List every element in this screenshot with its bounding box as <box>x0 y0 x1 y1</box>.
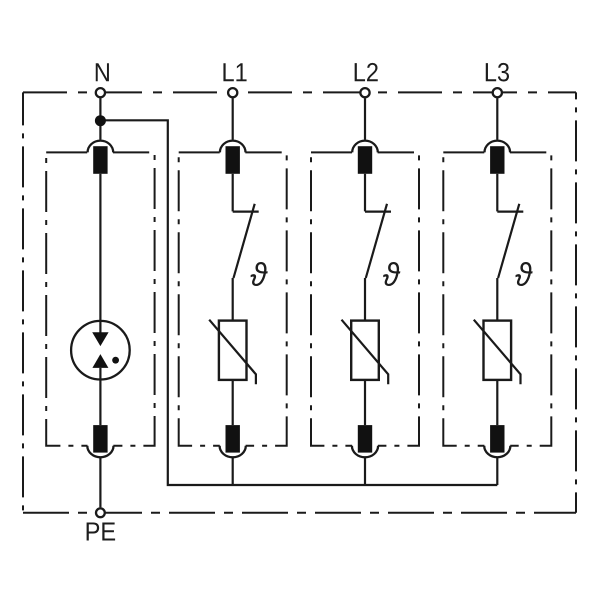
varistor L1 <box>209 320 256 425</box>
terminal block N top <box>93 146 107 174</box>
node N junction dot <box>95 115 106 126</box>
terminal block L3 bottom <box>490 425 504 453</box>
label L2 <box>355 63 378 81</box>
disconnector switch L1 <box>233 174 259 320</box>
terminal contact arc N top <box>88 151 113 155</box>
module box L2 <box>311 152 419 445</box>
label theta L1 <box>251 262 268 286</box>
label L3 <box>486 63 509 82</box>
spark gap electrode top triangle <box>92 332 108 346</box>
terminal L3 <box>493 88 502 97</box>
spark gap electrode bottom triangle <box>92 354 108 368</box>
terminal block L2 bottom <box>358 425 372 453</box>
enclosure outer dashed border <box>23 92 576 512</box>
terminal contact arc L1 bottom <box>220 444 246 448</box>
terminal contact arc L3 bottom <box>484 444 510 448</box>
terminal block L3 top <box>490 146 504 174</box>
label theta L2 <box>383 262 400 286</box>
module box L3 <box>443 152 551 445</box>
terminal block N bottom <box>93 425 107 453</box>
terminal block L1 top <box>226 146 240 174</box>
terminal contact arc N bottom <box>88 444 114 448</box>
terminal contact arc L2 top <box>352 151 377 155</box>
wire L3 terminal down <box>496 98 498 139</box>
wire L2 to bus <box>364 457 366 485</box>
label N <box>96 63 109 81</box>
terminal contact arc L1 top <box>220 151 245 155</box>
terminal L1 <box>228 88 237 97</box>
wire N node to PE bus <box>100 120 497 485</box>
label PE <box>87 522 116 540</box>
varistor L3 <box>474 320 521 425</box>
terminal block L2 top <box>358 146 372 174</box>
terminal block L1 bottom <box>226 425 240 453</box>
spark gap circle N <box>71 321 130 380</box>
wire spark gap to N bottom block <box>99 368 101 425</box>
disconnector switch L3 <box>497 174 523 320</box>
wire L1 to bus <box>232 457 234 485</box>
wire L3 to bus <box>496 457 498 485</box>
terminal L2 <box>360 88 369 97</box>
varistor L2 <box>342 320 389 425</box>
module box L1 <box>179 152 287 445</box>
wire N terminal down <box>99 98 101 139</box>
label L1 <box>223 63 246 81</box>
module box N <box>46 152 154 445</box>
disconnector switch L2 <box>365 174 391 320</box>
wire N block to spark gap <box>99 174 101 333</box>
terminal N <box>96 88 105 97</box>
spark gap dot <box>112 357 119 364</box>
wire L2 terminal down <box>364 98 366 139</box>
wire L1 terminal down <box>232 98 234 139</box>
terminal contact arc L2 bottom <box>352 444 378 448</box>
terminal contact arc L3 top <box>485 151 510 155</box>
wire N bottom block to PE <box>99 457 101 507</box>
terminal PE <box>96 508 105 517</box>
label theta L3 <box>516 262 533 286</box>
